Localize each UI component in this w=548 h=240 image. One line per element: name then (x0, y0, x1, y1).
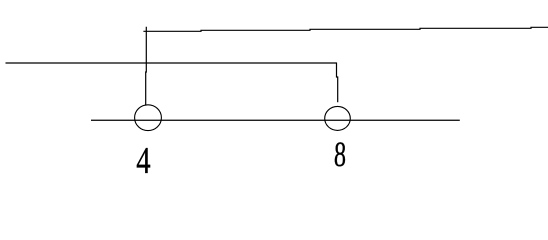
label 8 (334, 135, 347, 175)
wire: top horizontal segment from node A junction to right edge (143, 27, 548, 31)
wire: bottom horizontal number line through both circles (91, 119, 460, 121)
wire: vertical segment from middle wire down toward circle at 8 (337, 63, 338, 103)
node 4: open circle on number line (135, 105, 162, 131)
svg-text:8: 8 (334, 135, 347, 175)
svg-text:4: 4 (136, 140, 151, 182)
wire: middle horizontal segment from left edge to corner above circle at 8 (6, 62, 337, 64)
label 4 (136, 140, 151, 182)
wire: vertical segment from top wire down to circle at 4 (145, 27, 148, 106)
node 8: open circle on number line (325, 106, 351, 130)
